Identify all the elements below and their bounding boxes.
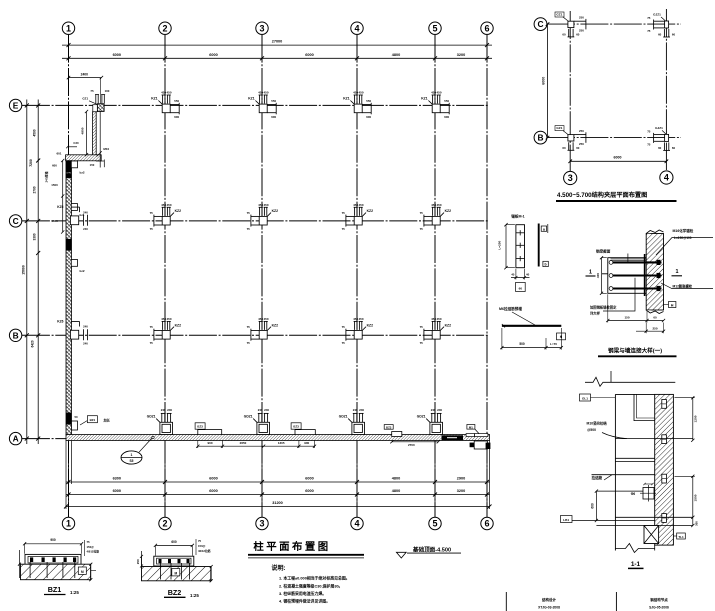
svg-text:250: 250: [579, 16, 584, 20]
1-1 right label TL: [677, 533, 686, 539]
grid line A (horizontal): [22, 438, 490, 440]
BZ2 pilaster plan: [154, 556, 194, 566]
svg-text:500: 500: [519, 342, 525, 346]
svg-text:250: 250: [579, 142, 584, 146]
BZ2 left tick: [141, 551, 143, 567]
detail A plate rectangle: [516, 225, 525, 268]
svg-text:4Φ12拉筋: 4Φ12拉筋: [87, 550, 100, 554]
svg-text:60: 60: [653, 315, 657, 319]
column KZ2 at C/5: [424, 207, 444, 226]
svg-text:2400: 2400: [81, 72, 89, 76]
svg-text:4. 钢柱预埋件做法详见详图。: 4. 钢柱预埋件做法详见详图。: [279, 599, 330, 604]
svg-text:钢结构节点: 钢结构节点: [650, 597, 668, 602]
solid wall segment near A/6: [442, 435, 464, 440]
svg-text:240: 240: [437, 408, 442, 412]
grid line 6 (vertical): [486, 35, 488, 518]
svg-text:75: 75: [342, 325, 346, 329]
svg-text:450: 450: [166, 91, 171, 95]
1-1 right dims: [692, 398, 694, 441]
second solid block on wall: [66, 173, 72, 178]
svg-text:3300: 3300: [33, 233, 37, 240]
svg-text:柱平面布置图: 柱平面布置图: [253, 540, 330, 553]
svg-text:1500: 1500: [51, 183, 58, 187]
svg-text:75: 75: [420, 211, 424, 215]
svg-text:SJG-05-2006: SJG-05-2006: [649, 606, 669, 610]
svg-text:4800: 4800: [392, 476, 400, 480]
grid bubble 6 bottom: [481, 517, 493, 529]
svg-text:450: 450: [358, 91, 363, 95]
svg-text:5: 5: [432, 519, 437, 529]
white gap box left of E/1a column: [93, 105, 98, 112]
mezzanine plan grid line 4: [665, 9, 667, 170]
wall box BZ3 (third) on A wall: [392, 432, 402, 437]
svg-text:6420: 6420: [31, 340, 35, 347]
svg-text:加固钢板锚栓固定: 加固钢板锚栓固定: [589, 305, 617, 310]
svg-text:900: 900: [50, 538, 56, 542]
svg-text:75: 75: [342, 211, 346, 215]
svg-text:75: 75: [420, 325, 424, 329]
svg-text:2650: 2650: [240, 441, 247, 445]
svg-text:60: 60: [562, 146, 566, 150]
column GDZ1 at A/5: [426, 413, 442, 434]
1-1 beam lines: [615, 438, 692, 440]
svg-text:600: 600: [52, 164, 57, 168]
svg-text:240: 240: [83, 227, 88, 231]
detail A anchor cross 3: [516, 258, 525, 260]
svg-text:钢梁截面: 钢梁截面: [596, 249, 611, 254]
svg-text:KZ1: KZ1: [421, 97, 428, 101]
svg-text:GJZ1: GJZ1: [653, 13, 661, 17]
footer divider lines: [505, 592, 507, 611]
detail callout balloon at A/2: [121, 451, 142, 464]
svg-text:6000: 6000: [305, 53, 313, 57]
svg-text:75: 75: [420, 341, 424, 345]
top dimension line segments: [62, 57, 492, 59]
svg-text:1-1: 1-1: [631, 561, 641, 568]
mezzanine bubble C: [534, 18, 547, 31]
sub-dimension 2700 right: [392, 441, 438, 443]
svg-text:60: 60: [576, 32, 580, 36]
svg-text:bz2: bz2: [80, 171, 85, 175]
svg-text:3200: 3200: [457, 489, 465, 493]
svg-text:240: 240: [431, 408, 436, 412]
svg-text:60: 60: [576, 146, 580, 150]
svg-text:300: 300: [695, 521, 699, 526]
svg-text:GDZ1: GDZ1: [339, 414, 348, 418]
svg-text:240: 240: [264, 408, 269, 412]
wall box BZ3 (right) on A wall: [295, 430, 315, 435]
ticks above E/1a column: [95, 95, 105, 104]
solid wall column near A: [66, 413, 72, 425]
svg-text:550: 550: [174, 99, 179, 103]
svg-text:LB1: LB1: [563, 518, 569, 522]
column KZ2 at C/4: [346, 207, 366, 226]
svg-text:KZ6: KZ6: [57, 319, 63, 323]
svg-text:240厚墙: 240厚墙: [44, 171, 49, 182]
1-1 wall hatched: [655, 394, 674, 545]
left dimension line outer: [26, 100, 28, 445]
svg-text:L=70: L=70: [550, 342, 557, 346]
svg-text:C20: C20: [73, 141, 79, 145]
svg-text:75: 75: [247, 341, 251, 345]
svg-text:M12膨胀螺栓: M12膨胀螺栓: [673, 283, 693, 288]
1-1 top notch: [634, 394, 655, 420]
svg-text:6: 6: [484, 519, 489, 529]
extension line right of upper wall: [99, 112, 101, 168]
svg-text:GZ1: GZ1: [556, 126, 562, 130]
svg-text:40: 40: [526, 273, 530, 277]
detail C top thin lines: [611, 258, 647, 260]
right bracket 150 below wall: [96, 160, 104, 162]
svg-text:TL1: TL1: [678, 535, 684, 539]
svg-text:KZ6: KZ6: [57, 205, 63, 209]
grid bubble 3 top: [256, 22, 268, 34]
svg-text:75: 75: [342, 227, 346, 231]
svg-text:250: 250: [136, 559, 140, 564]
1-1 bottom break: [615, 544, 654, 553]
svg-text:150: 150: [90, 163, 95, 167]
detail A anchor cross 1: [516, 232, 525, 234]
BZ2 left dim: [141, 556, 143, 566]
svg-text:60: 60: [672, 146, 676, 150]
svg-text:基础顶面-4.500: 基础顶面-4.500: [412, 545, 451, 553]
svg-text:结构设计: 结构设计: [542, 597, 556, 602]
svg-text:M10: M10: [103, 147, 109, 151]
left dimension line inner: [37, 100, 39, 445]
svg-text:6000: 6000: [305, 476, 313, 480]
svg-text:600: 600: [174, 115, 179, 119]
grid bubble 4 top: [351, 22, 363, 34]
svg-text:1500: 1500: [693, 494, 697, 501]
detail C anchor plate line: [644, 254, 646, 296]
svg-text:KZ2: KZ2: [367, 323, 374, 327]
mezzanine bubble 4: [660, 171, 673, 184]
svg-text:6000: 6000: [113, 53, 121, 57]
column KZ2 at B/3: [251, 321, 271, 340]
svg-text:6000: 6000: [209, 53, 217, 57]
svg-text:75: 75: [647, 142, 651, 146]
wall pilaster bz1: [71, 204, 77, 211]
svg-text:60: 60: [672, 33, 676, 37]
svg-text:KZ2: KZ2: [367, 209, 374, 213]
pier below wall at A/6: [474, 441, 487, 449]
svg-text:GDZ1: GDZ1: [244, 414, 253, 418]
svg-text:1. 本工程±0.000相当于绝对标高见总图。: 1. 本工程±0.000相当于绝对标高见总图。: [279, 576, 350, 581]
mezzanine column GJZ1 at B/4: [654, 133, 670, 151]
mezzanine column GJZ1 at C/4: [654, 20, 670, 38]
sub-dimension line under A wall (middle): [198, 445, 315, 447]
svg-text:240: 240: [83, 325, 88, 329]
svg-text:1:25: 1:25: [190, 593, 199, 598]
svg-text:加长: 加长: [103, 418, 111, 423]
svg-text:1: 1: [66, 23, 71, 33]
svg-text:E: E: [13, 100, 19, 110]
svg-text:2700: 2700: [408, 443, 415, 447]
svg-text:Φ6: Φ6: [631, 492, 636, 496]
main vertical wall on grid 1: [66, 161, 72, 435]
detail C H label: [669, 302, 676, 308]
bottom dimension row 3 overall 31200: [66, 506, 490, 508]
svg-text:详大样: 详大样: [590, 310, 601, 315]
grid line 3 (vertical): [261, 35, 263, 518]
svg-text:75: 75: [647, 129, 651, 133]
svg-text:A: A: [13, 434, 19, 444]
grid line 2 (vertical): [164, 35, 166, 518]
svg-text:240: 240: [83, 342, 88, 346]
svg-text:GZ1: GZ1: [556, 12, 562, 16]
detail A anchor cross 2: [516, 244, 525, 246]
svg-text:4: 4: [354, 519, 359, 529]
1-1 left outline: [614, 394, 616, 550]
svg-text:600: 600: [366, 115, 371, 119]
svg-text:M10竖向拉结: M10竖向拉结: [587, 421, 608, 426]
detail C bolts: [611, 261, 662, 263]
column KZ2 at B/5: [424, 321, 444, 340]
svg-text:600: 600: [271, 115, 276, 119]
svg-text:GDZ1: GDZ1: [417, 414, 426, 418]
svg-text:BZ2: BZ2: [168, 588, 182, 597]
bottom dimension row 2: [66, 494, 490, 496]
svg-text:锚板M-1: 锚板M-1: [511, 213, 524, 218]
svg-text:KZ1: KZ1: [343, 97, 350, 101]
column KZ2 at C/3: [251, 207, 271, 226]
svg-text:GL1: GL1: [582, 396, 588, 400]
svg-text:BZ3: BZ3: [293, 425, 299, 429]
svg-text:BZ1: BZ1: [48, 585, 62, 594]
BZ1 top dim: [25, 543, 82, 545]
svg-text:1500: 1500: [51, 219, 58, 223]
svg-text:2. 柱混凝土强度等级C30,保护层30。: 2. 柱混凝土强度等级C30,保护层30。: [279, 584, 343, 589]
svg-text:450: 450: [436, 317, 441, 321]
1-1 embedded plates: [662, 400, 667, 409]
svg-text:600: 600: [444, 115, 449, 119]
column KZ2 at B/2: [154, 321, 174, 340]
svg-text:75: 75: [87, 540, 91, 544]
grid bubble 5 top: [429, 22, 441, 34]
svg-text:450: 450: [263, 91, 268, 95]
svg-text:C: C: [13, 216, 19, 226]
svg-text:4800: 4800: [392, 53, 400, 57]
mezzanine plan grid line B: [547, 137, 681, 139]
svg-text:100: 100: [105, 89, 110, 93]
grid bubble 5 bottom: [429, 517, 441, 529]
grid bubble E left: [9, 99, 21, 111]
svg-text:75: 75: [647, 16, 651, 20]
svg-text:550: 550: [444, 99, 449, 103]
svg-text:240: 240: [83, 210, 88, 214]
svg-text:XTJG-03-2008: XTJG-03-2008: [538, 606, 560, 610]
svg-text:3: 3: [568, 173, 573, 183]
svg-text:6000: 6000: [305, 489, 313, 493]
upper horizontal wall segment: [66, 155, 102, 161]
svg-text:60: 60: [658, 146, 662, 150]
column KZ1 at E/2: [158, 95, 179, 114]
svg-text:1: 1: [66, 519, 71, 529]
svg-text:600: 600: [171, 540, 177, 544]
svg-text:2700: 2700: [33, 186, 37, 193]
1-1 top break line: [585, 377, 675, 386]
svg-text:BZ3: BZ3: [386, 425, 392, 429]
BZ2 wall hatch: [142, 567, 211, 581]
svg-text:1:25: 1:25: [70, 590, 79, 595]
svg-text:KZ2: KZ2: [272, 323, 279, 327]
detail C top-right leader: [656, 238, 713, 256]
svg-text:L=250: L=250: [497, 240, 501, 249]
svg-text:900: 900: [304, 441, 309, 445]
column GDZ1 at A/3: [253, 413, 269, 434]
svg-text:4500: 4500: [33, 129, 37, 136]
svg-text:75: 75: [342, 341, 346, 345]
svg-text:450: 450: [263, 317, 268, 321]
svg-text:M6拉结筋预埋: M6拉结筋预埋: [499, 306, 522, 311]
svg-text:BZ3: BZ3: [197, 425, 203, 429]
detail B dim: [502, 347, 561, 349]
svg-text:KZ2: KZ2: [445, 209, 452, 213]
BZ1 dowel bars: [29, 562, 31, 578]
detail C bottom dim 1: [608, 320, 664, 322]
mezzanine bubble 3: [564, 171, 577, 184]
svg-text:GJZ1: GJZ1: [655, 126, 663, 130]
svg-text:说明:: 说明:: [272, 564, 286, 572]
BZ1 left tick: [18, 550, 20, 578]
svg-text:60: 60: [519, 287, 523, 291]
svg-text:240: 240: [167, 408, 172, 412]
svg-text:240: 240: [353, 408, 358, 412]
svg-text:L=150@100: L=150@100: [674, 236, 692, 240]
svg-text:60: 60: [658, 33, 662, 37]
grid bubble 6 top: [481, 22, 493, 34]
svg-text:31200: 31200: [272, 501, 283, 505]
svg-text:4: 4: [354, 23, 359, 33]
svg-text:M16化学锚栓: M16化学锚栓: [673, 228, 694, 233]
top dimension line overall 27000: [62, 44, 492, 46]
detail A bottom box: [516, 282, 526, 291]
grid bubble 2 bottom: [159, 517, 171, 529]
svg-text:450: 450: [263, 203, 268, 207]
svg-text:450: 450: [358, 317, 363, 321]
svg-text:6000: 6000: [614, 156, 622, 160]
mezzanine vertical dim 6000: [547, 24, 549, 138]
grid line 1 (vertical): [68, 35, 70, 518]
svg-text:75: 75: [150, 211, 154, 215]
grid bubble 1 bottom: [62, 517, 74, 529]
svg-text:250: 250: [579, 28, 584, 32]
svg-text:GDZ1: GDZ1: [147, 414, 156, 418]
mezzanine bubble B: [534, 131, 547, 144]
svg-text:KZ1: KZ1: [248, 97, 255, 101]
svg-text:50: 50: [74, 415, 78, 419]
BZ2 right mini dim: [210, 567, 212, 581]
svg-text:KZ2: KZ2: [175, 323, 182, 327]
corner label BZ1 at A/1: [87, 416, 97, 423]
mezzanine plan grid line C: [547, 23, 681, 25]
svg-text:75: 75: [247, 325, 251, 329]
svg-text:3: 3: [259, 519, 264, 529]
svg-text:6300: 6300: [113, 476, 121, 480]
svg-text:450: 450: [166, 203, 171, 207]
1-1 LB label: [561, 516, 573, 523]
svg-text:2: 2: [162, 23, 167, 33]
svg-text:75: 75: [90, 89, 94, 93]
svg-text:150: 150: [624, 315, 629, 319]
svg-text:6000: 6000: [113, 489, 121, 493]
svg-text:b: b: [545, 263, 547, 267]
svg-text:550: 550: [271, 99, 276, 103]
svg-text:400: 400: [596, 273, 600, 278]
BZ2 top dim: [155, 544, 192, 546]
svg-text:75: 75: [247, 227, 251, 231]
column KZ6 at C/1: [70, 207, 87, 226]
detail C lower-right leader: [661, 283, 713, 289]
svg-text:1: 1: [131, 453, 133, 457]
svg-text:75: 75: [247, 211, 251, 215]
wall pilaster bz2: [71, 161, 77, 168]
svg-text:600: 600: [591, 503, 595, 509]
svg-text:2900: 2900: [457, 476, 465, 480]
bottom wall on grid A: [66, 435, 490, 441]
corner column (solid) below upper wall: [66, 161, 72, 173]
grid bubble 2 top: [159, 22, 171, 34]
svg-text:6000: 6000: [209, 489, 217, 493]
svg-text:40: 40: [511, 273, 515, 277]
mezzanine horizontal dim 6000: [570, 160, 666, 162]
svg-text:1200: 1200: [693, 415, 697, 422]
small pilaster at A/1 corner: [72, 421, 78, 430]
svg-text:a: a: [543, 227, 545, 231]
dim 2400 for E/1a column: [69, 77, 102, 79]
solid extension lines to bottom bubbles: [68, 441, 70, 518]
detail C wall (hatched): [646, 234, 663, 311]
1-1 top-left label: [580, 394, 591, 401]
svg-text:75: 75: [647, 29, 651, 33]
svg-text:M: M: [174, 571, 177, 575]
svg-text:拉结筋: 拉结筋: [592, 475, 603, 480]
svg-text:27000: 27000: [272, 40, 283, 44]
svg-text:240: 240: [258, 408, 263, 412]
svg-text:4800: 4800: [392, 489, 400, 493]
svg-text:75: 75: [150, 341, 154, 345]
BZ1 pilaster plan: [25, 554, 81, 565]
svg-text:450: 450: [166, 317, 171, 321]
grid bubble C left: [9, 215, 21, 227]
svg-text:1305: 1305: [278, 441, 285, 445]
svg-text:5: 5: [432, 23, 437, 33]
grid bubble 1 top: [62, 22, 74, 34]
svg-text:KZ2: KZ2: [445, 323, 452, 327]
column GDZ1 at A/4: [348, 413, 364, 434]
svg-text:150@: 150@: [87, 545, 95, 549]
column KZ1 at E/5: [428, 95, 449, 114]
grid bubble 4 bottom: [351, 517, 363, 529]
wall pilaster bz2: [71, 260, 77, 267]
svg-text:@500: @500: [587, 428, 596, 432]
1-1 left dim: [595, 491, 597, 520]
detail C beam outline: [608, 258, 650, 294]
svg-text:钢梁与墙连接大样(一): 钢梁与墙连接大样(一): [608, 346, 662, 354]
grid line B (horizontal): [22, 334, 490, 336]
svg-text:KZ2: KZ2: [175, 209, 182, 213]
svg-text:2: 2: [162, 519, 167, 529]
detail C left dim: [601, 258, 603, 294]
column KZ1 at E/4: [350, 95, 371, 114]
svg-text:4.500~5.700结构夹层平面布置图: 4.500~5.700结构夹层平面布置图: [557, 191, 647, 199]
solid wall column mid (C-B): [66, 239, 72, 251]
grid line 4 (vertical): [356, 35, 358, 518]
svg-text:3: 3: [259, 23, 264, 33]
svg-text:75: 75: [150, 227, 154, 231]
detail A left dim: [505, 225, 507, 268]
svg-text:B: B: [537, 133, 543, 143]
